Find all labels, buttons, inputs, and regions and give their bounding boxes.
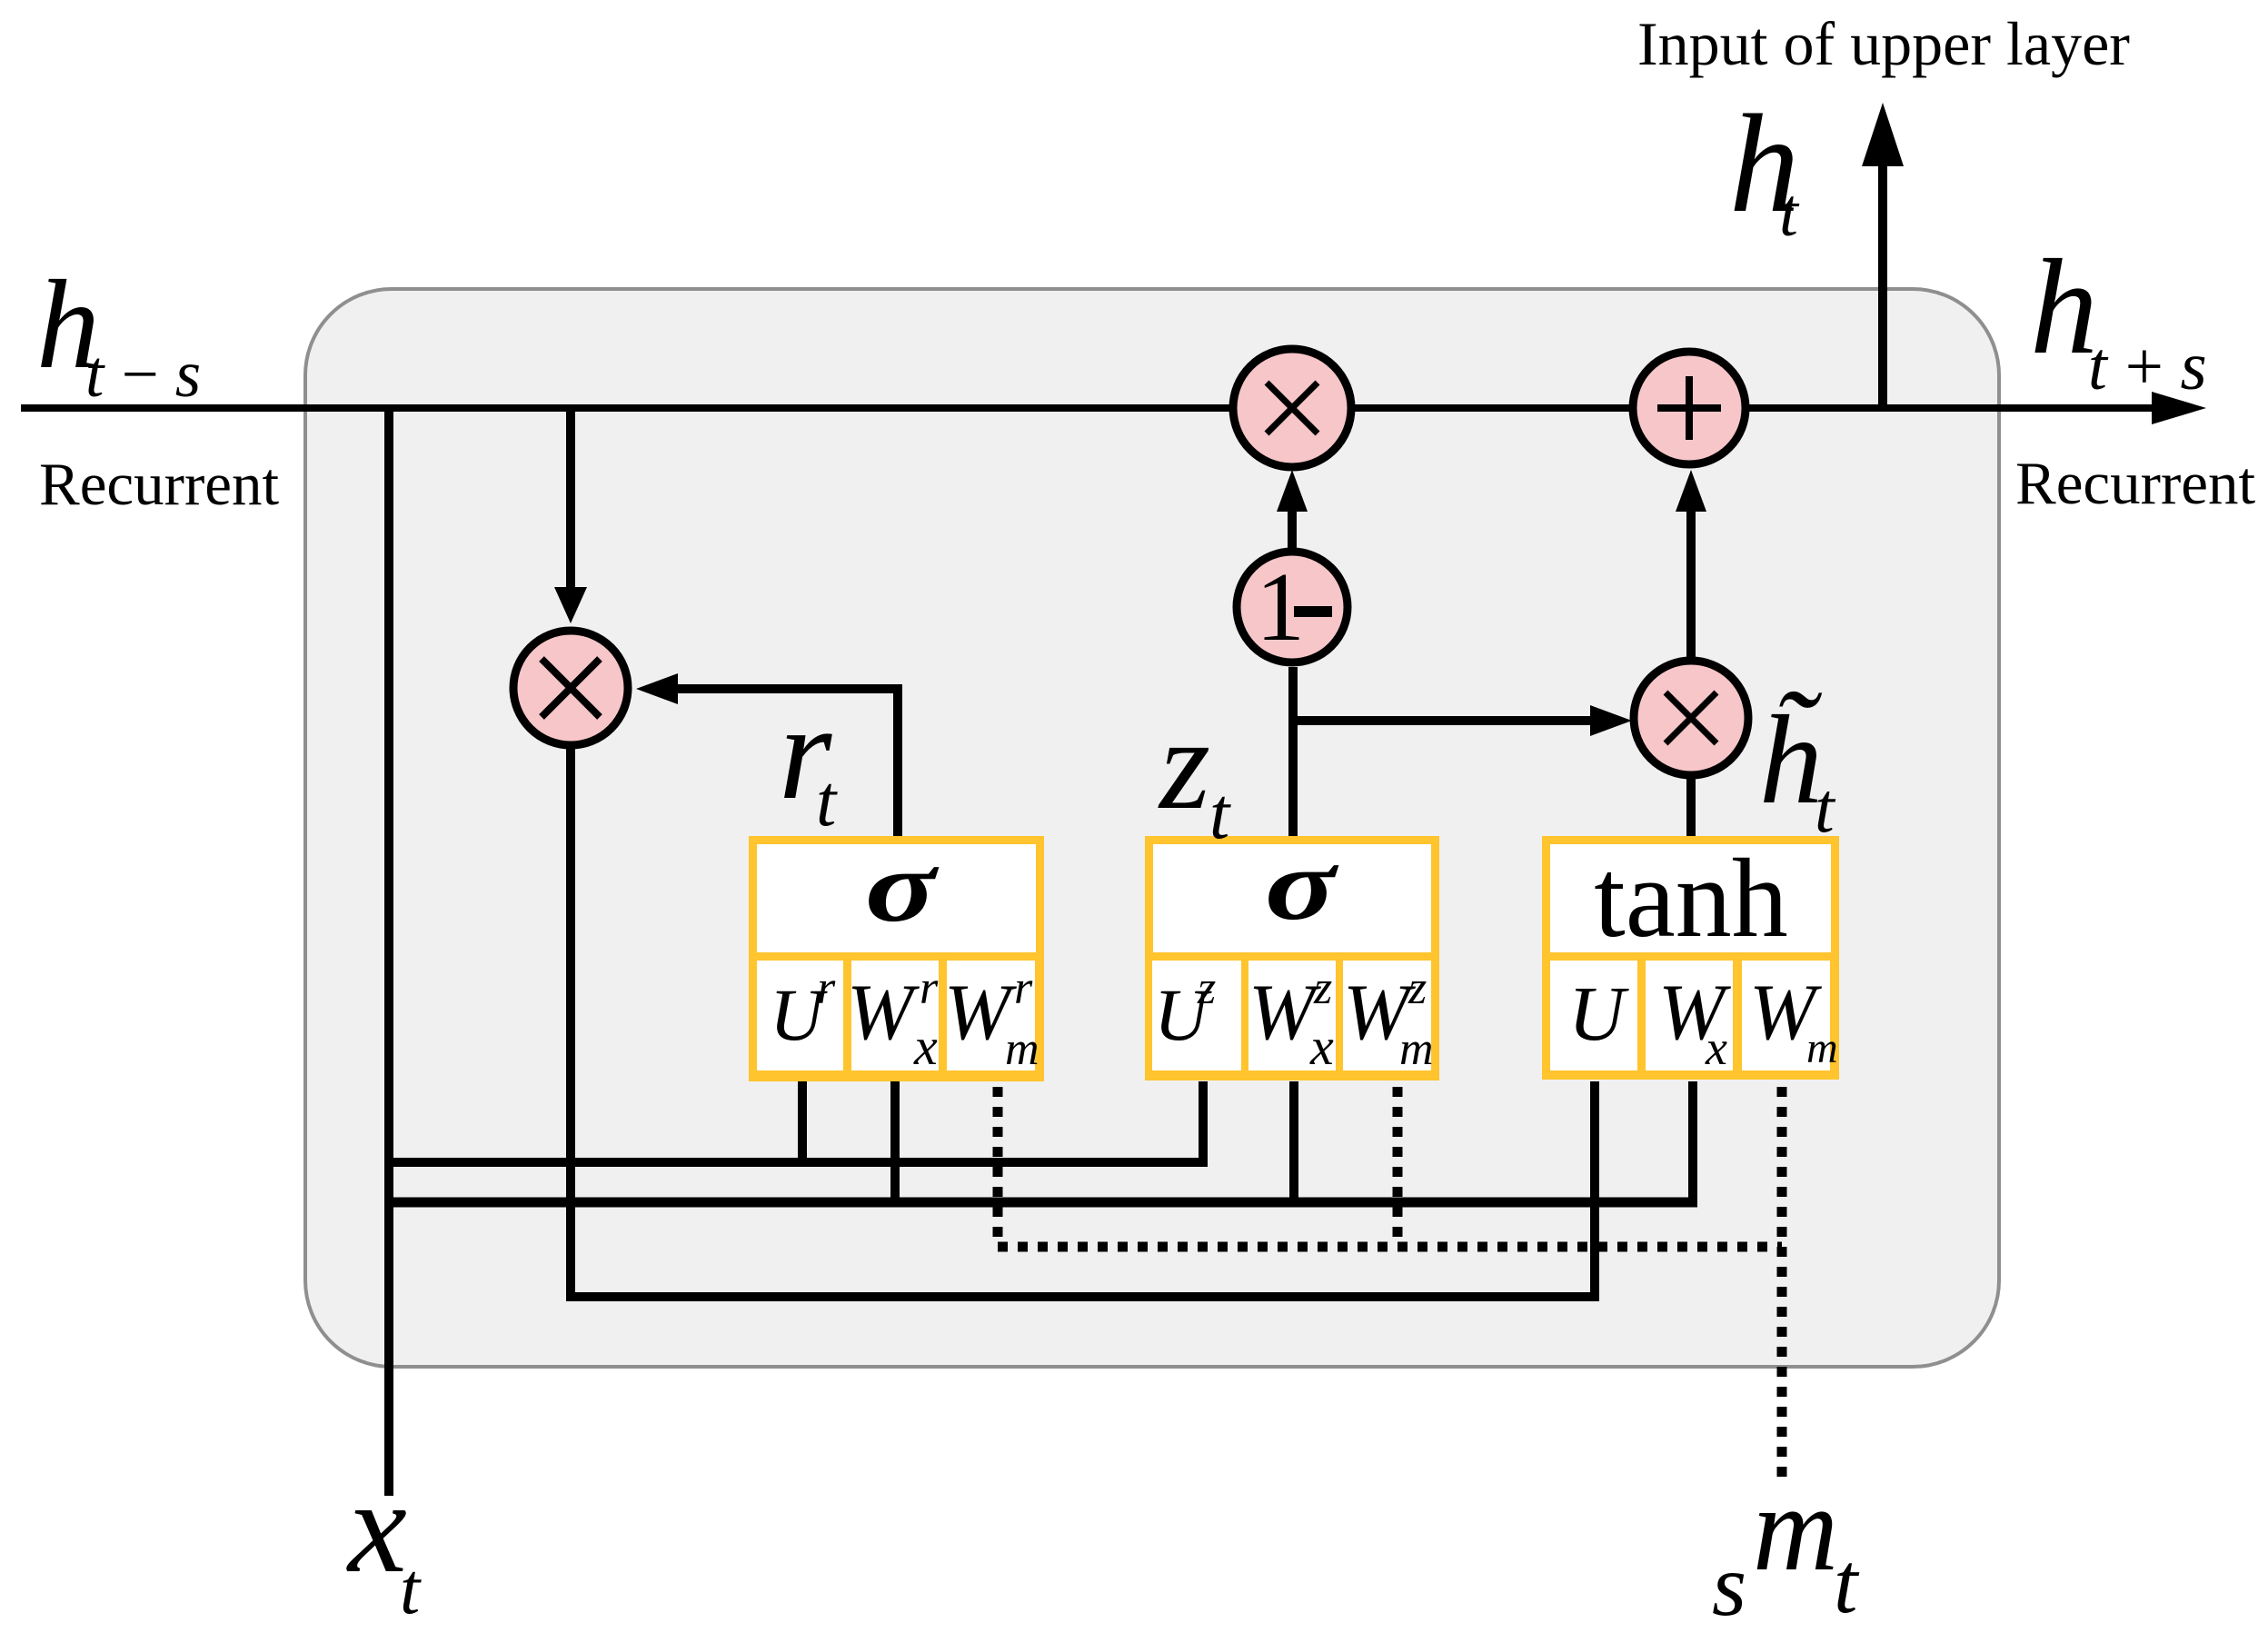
wire: stub U^r down to line1 <box>798 1081 807 1167</box>
arrowhead right into multiply3 <box>1590 705 1632 736</box>
svg-text:U: U <box>1568 970 1629 1057</box>
wire: stub W^r_x down to line2 <box>890 1081 900 1207</box>
wire: h_t output up from main line <box>1878 145 1887 412</box>
svg-text:z: z <box>1158 692 1210 837</box>
svg-text:x: x <box>1309 1017 1334 1076</box>
wire: arrowhead right end of recurrent line <box>2152 392 2206 424</box>
svg-text:z: z <box>1408 962 1427 1014</box>
one-minus node <box>1237 552 1348 662</box>
svg-text:t: t <box>816 762 838 841</box>
wire: multiply3 up to plus <box>1686 496 1696 661</box>
wire: dotted horizontal m feed <box>998 1242 1782 1252</box>
sigma box 2 (update gate) <box>1145 829 1439 1080</box>
wire: stub U(tanh) down to line3 <box>1590 1081 1599 1301</box>
svg-text:x: x <box>346 1453 407 1600</box>
svg-text:t: t <box>400 1549 422 1629</box>
svg-text:h̃: h̃ <box>1759 690 1823 831</box>
svg-text:z: z <box>1197 962 1216 1014</box>
svg-text:r: r <box>817 962 836 1014</box>
svg-text:z: z <box>1313 962 1332 1014</box>
wire: r_t horizontal into multiply1 <box>667 684 902 693</box>
wire: htilde from tanh top up to multiply3 <box>1686 779 1696 841</box>
svg-text:σ: σ <box>865 831 939 943</box>
svg-text:t: t <box>1209 774 1231 854</box>
wire: z_t from sigma2 top up to oneminus <box>1288 667 1298 841</box>
svg-text:t: t <box>1779 175 1800 251</box>
sigma box 1 (reset gate) <box>749 831 1044 1081</box>
wire: vertical into multiply1 from main line <box>566 404 575 600</box>
svg-text:r: r <box>920 962 939 1014</box>
wire: vertical x_t / h feed line <box>384 404 393 1496</box>
svg-text:t + s: t + s <box>2088 329 2207 404</box>
multiply node 2 (on main line) <box>1233 349 1351 467</box>
svg-text:x: x <box>1705 1021 1727 1075</box>
wire: x feed horizontal (line2) <box>384 1198 1697 1208</box>
svg-text:t − s: t − s <box>85 337 201 411</box>
wire: dotted stub W^r_m down to dotted line <box>993 1087 1003 1247</box>
svg-text:m: m <box>1753 1461 1838 1597</box>
plus node <box>1633 352 1746 464</box>
wire: dotted vertical m_t up to W_m(tanh) <box>1777 1087 1787 1487</box>
tanh box (candidate) <box>1542 836 1839 1080</box>
svg-text:tanh: tanh <box>1594 836 1788 961</box>
arrowhead up into multiply2 <box>1277 470 1308 512</box>
svg-text:x: x <box>913 1017 938 1076</box>
svg-text:Recurrent: Recurrent <box>2015 450 2256 517</box>
wire: oneminus up to multiply2 <box>1288 496 1297 551</box>
arrowhead left into multiply1 <box>636 673 678 704</box>
arrowhead down into multiply1 <box>554 587 587 623</box>
wire: h feed horizontal (line1) <box>384 1158 1208 1167</box>
wire: r_t vertical from sigma1 top <box>893 693 902 841</box>
arrowhead up into plus <box>1676 470 1706 512</box>
svg-text:s: s <box>1712 1537 1746 1633</box>
svg-text:σ: σ <box>1265 829 1338 941</box>
svg-text:m: m <box>1399 1023 1434 1075</box>
multiply node 3 (candidate apply) <box>1634 661 1748 775</box>
svg-text:r: r <box>1014 962 1033 1014</box>
svg-text:t: t <box>1815 768 1836 847</box>
wire: stub W^z_x down to line2 <box>1289 1081 1298 1207</box>
svg-text:t: t <box>1834 1535 1860 1631</box>
arrowhead up h_t output <box>1862 103 1904 166</box>
svg-text:Input of upper layer: Input of upper layer <box>1637 9 2130 78</box>
wire: main recurrent line h <box>21 404 2161 412</box>
wire: multiply1 output down to line3 <box>566 745 575 1301</box>
svg-text:m: m <box>1005 1023 1039 1075</box>
wire: dotted stub W^z_m <box>1393 1087 1403 1247</box>
svg-text:m: m <box>1806 1024 1838 1072</box>
wire: z branch right to multiply3 <box>1293 716 1599 725</box>
svg-text:W: W <box>847 969 920 1057</box>
GRU cell body <box>305 289 1999 1367</box>
svg-text:Recurrent: Recurrent <box>39 451 280 518</box>
wire: r*h feed horizontal (line3) <box>566 1292 1599 1301</box>
wire: stub U^z down to line1 <box>1199 1081 1208 1167</box>
wire: stub W_x(tanh) down to line2 <box>1688 1081 1697 1207</box>
multiply node 1 (reset gate apply) <box>513 631 628 745</box>
